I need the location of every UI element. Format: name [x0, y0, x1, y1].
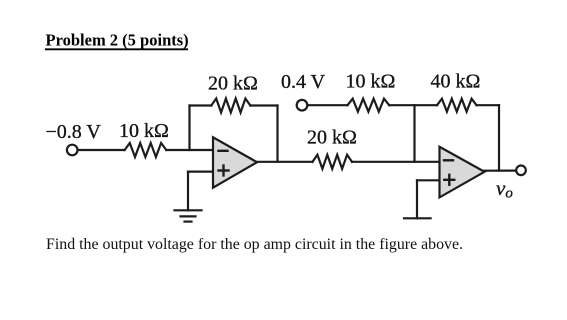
- terminal: input source 0.4 V: [297, 100, 308, 111]
- wire: U1 plus input horizontal: [188, 171, 213, 173]
- wire: U2 output to terminal: [484, 170, 516, 172]
- svg-text:10 kΩ: 10 kΩ: [346, 71, 396, 93]
- title: Problem 2 (5 points): [45, 31, 189, 50]
- resistor R1 10 kOhm input: [125, 143, 167, 157]
- svg-text:Find the output voltage for th: Find the output voltage for the op amp c…: [46, 236, 463, 253]
- terminal: output vo: [516, 166, 526, 176]
- wire: feedback top right segment: [250, 104, 277, 106]
- wire: feedback top left segment: [190, 104, 212, 106]
- wire: R4 to node A: [389, 104, 437, 106]
- resistor R4 10 kOhm top: [348, 99, 390, 112]
- terminal: input source -0.8 V: [67, 145, 78, 156]
- resistor R3 20 kOhm between op-amps: [313, 155, 353, 169]
- svg-text:20 kΩ: 20 kΩ: [208, 73, 258, 95]
- wire: R1 to op-amp U1 inverting input: [166, 149, 213, 151]
- wire: R3 to U2 inverting input: [352, 161, 440, 163]
- ground: U1 non-inverting input: [175, 210, 202, 221]
- wire: top rail source to R4: [307, 104, 347, 106]
- wire: U2 plus input horizontal: [417, 179, 440, 181]
- wire: input source to R1: [78, 149, 125, 151]
- svg-text:−0.8 V: −0.8 V: [46, 121, 102, 143]
- wire: R5 to right corner: [477, 104, 500, 106]
- wire: U2 plus input down to ground: [416, 180, 418, 218]
- wire: U1 output to R3: [257, 161, 313, 163]
- wire: U1 plus input down to ground: [187, 172, 189, 211]
- ground: U2 non-inverting input (single bar): [404, 217, 431, 219]
- op-amp U1: [213, 137, 257, 187]
- wire: feedback left vertical up from inverting node: [188, 106, 190, 151]
- op-amp U2: [440, 147, 485, 198]
- resistor R5 40 kOhm feedback U2: [437, 99, 477, 112]
- svg-text:40 kΩ: 40 kΩ: [431, 71, 481, 93]
- wire: right vertical down to U2 output: [498, 105, 500, 170]
- wire: node A vertical down to U2 inverting input: [413, 105, 415, 162]
- resistor R2 20 kOhm feedback U1: [211, 99, 250, 113]
- svg-text:Problem 2 (5 points): Problem 2 (5 points): [46, 31, 189, 50]
- svg-text:vo: vo: [496, 176, 513, 202]
- svg-text:20 kΩ: 20 kΩ: [307, 126, 357, 148]
- svg-text:0.4 V: 0.4 V: [281, 71, 326, 93]
- wire: feedback right vertical down to U1 output: [276, 106, 278, 162]
- svg-text:10 kΩ: 10 kΩ: [119, 120, 169, 142]
